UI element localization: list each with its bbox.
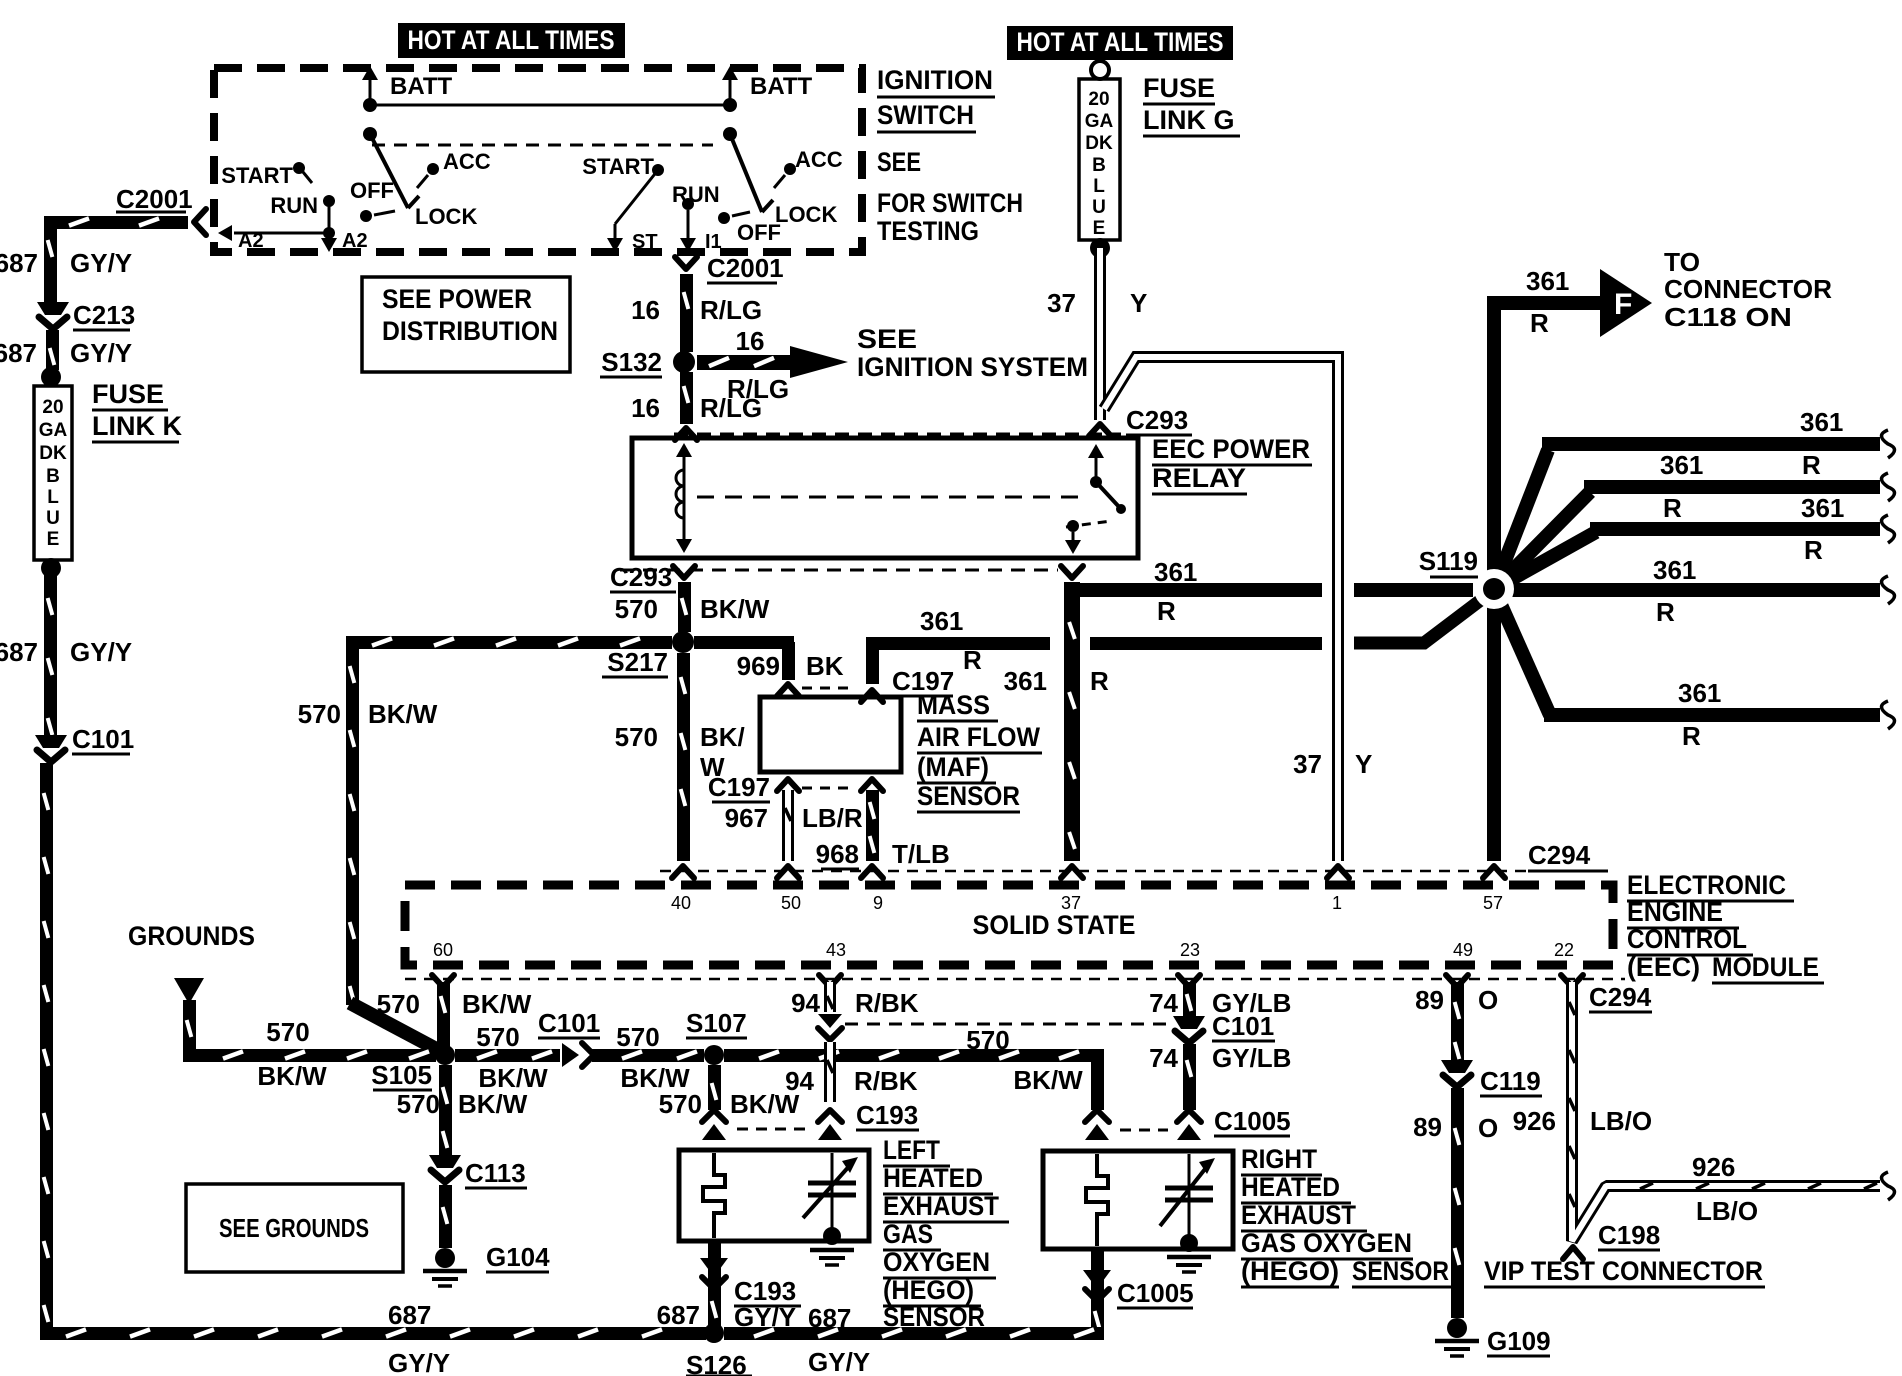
connector half C293 (relay top)	[675, 428, 697, 440]
svg-text:BK/W: BK/W	[700, 594, 770, 624]
svg-text:570: 570	[615, 594, 658, 624]
label 361 R (horizontal)	[1154, 557, 1197, 626]
label 687 GY/Y	[0, 248, 132, 278]
svg-text:G109: G109	[1487, 1326, 1551, 1356]
wire 570 BK/W S105 down to C113	[439, 1065, 452, 1155]
wire BATT internal bus	[370, 104, 730, 107]
connector half C294 pin 22	[1561, 975, 1583, 987]
connector half C294 pin 60	[432, 975, 454, 987]
svg-text:C1005: C1005	[1214, 1106, 1291, 1136]
label 89 O (lower)	[1413, 1112, 1498, 1143]
wire 570 BK/W relay to S217	[678, 582, 691, 632]
label ELECTRONIC ENGINE CONTROL (EEC) MODULE	[1627, 870, 1824, 983]
svg-text:BK/W: BK/W	[1013, 1065, 1083, 1095]
svg-text:(MAF): (MAF)	[917, 752, 989, 782]
svg-text:U: U	[1092, 197, 1106, 218]
splice S132	[600, 347, 695, 377]
label 570 BK/W (S105-C101)	[476, 1022, 548, 1093]
wire 570 BK/W EEC pin 60 to S105	[437, 982, 450, 1048]
svg-text:C213: C213	[73, 300, 135, 330]
contact LOCK (right)	[762, 200, 837, 227]
svg-text:968: 968	[816, 839, 859, 869]
wire 687 GY/Y left vertical upper	[44, 216, 57, 302]
svg-text:20: 20	[42, 397, 63, 418]
wire 361 R S119 down to EEC pin 57	[1487, 589, 1501, 861]
svg-text:22: 22	[1554, 940, 1574, 960]
label 570 BK/W	[615, 594, 770, 624]
connector half C294 pin 49	[1446, 975, 1468, 987]
svg-text:SEE GROUNDS: SEE GROUNDS	[219, 1213, 369, 1243]
right HEGO sensing element	[1160, 1154, 1215, 1272]
svg-text:RIGHT: RIGHT	[1241, 1144, 1317, 1174]
svg-text:E: E	[1093, 218, 1106, 239]
svg-text:IGNITION: IGNITION	[877, 65, 993, 95]
wire 361 R spoke 5 horizontal	[1544, 701, 1895, 729]
svg-text:687: 687	[0, 338, 37, 368]
svg-text:ELECTRONIC: ELECTRONIC	[1627, 870, 1786, 900]
svg-text:C197: C197	[708, 772, 770, 802]
svg-text:89: 89	[1413, 1112, 1442, 1142]
svg-text:361: 361	[1154, 557, 1197, 587]
label LEFT HEATED EXHAUST GAS OXYGEN (HEGO) SENSOR	[883, 1135, 1009, 1333]
right BATT terminal arrow	[722, 66, 813, 105]
connector C197 interface dashed line (top)	[802, 687, 856, 690]
connector C197 interface dashed line (bottom)	[802, 787, 856, 790]
svg-text:C2001: C2001	[707, 253, 784, 283]
connector half C294 pin 1	[1327, 866, 1349, 878]
svg-text:HOT AT ALL TIMES: HOT AT ALL TIMES	[1017, 27, 1224, 57]
connector C101 (94 wire)	[818, 1014, 842, 1040]
power source banner HOT AT ALL TIMES (right)	[1007, 26, 1233, 60]
connector C1005 (bottom)	[1083, 1270, 1194, 1308]
contact LOCK (left)	[408, 196, 477, 229]
label 74 GY/LB (upper)	[1149, 988, 1291, 1018]
svg-text:BK/W: BK/W	[257, 1061, 327, 1091]
svg-text:VIP TEST CONNECTOR: VIP TEST CONNECTOR	[1484, 1256, 1763, 1286]
svg-text:ST: ST	[632, 231, 658, 253]
wire 361 R spoke 3 diagonal	[1494, 532, 1596, 589]
svg-text:CONTROL: CONTROL	[1627, 924, 1747, 954]
label 570 BK/W (C101-S107)	[616, 1022, 690, 1093]
left BATT terminal arrow	[362, 66, 453, 105]
label C193 (top)	[856, 1100, 919, 1130]
svg-text:LOCK: LOCK	[415, 204, 477, 229]
connector half C197 pin 969	[777, 684, 799, 696]
connector C101 (ground bus)	[538, 1008, 600, 1067]
label 16 R/LG (arrow)	[727, 326, 789, 404]
connector C294 interface dashed line (bottom)	[405, 978, 1625, 981]
svg-text:16: 16	[631, 393, 660, 423]
wire 570 BK/W S107 to right HEGO	[724, 1049, 1104, 1062]
wire 968 T/LB	[866, 790, 879, 861]
right HEGO sensor box	[1043, 1151, 1233, 1249]
svg-text:361: 361	[1653, 555, 1696, 585]
svg-text:SENSOR: SENSOR	[917, 781, 1020, 811]
svg-text:DK: DK	[39, 443, 67, 464]
EEC power relay box	[632, 438, 1138, 558]
svg-text:S126: S126	[686, 1350, 747, 1376]
svg-text:S105: S105	[371, 1060, 432, 1090]
svg-text:TESTING: TESTING	[877, 216, 979, 246]
label RIGHT HEATED EXHAUST GAS OXYGEN (HEGO) SENSOR	[1241, 1144, 1461, 1287]
label 37 Y	[1047, 288, 1147, 318]
svg-text:C1005: C1005	[1117, 1278, 1194, 1308]
label C293	[1126, 405, 1192, 435]
svg-text:EXHAUST: EXHAUST	[1241, 1200, 1356, 1230]
svg-text:BK/: BK/	[700, 722, 745, 752]
svg-text:687: 687	[808, 1303, 851, 1333]
svg-text:RUN: RUN	[270, 193, 318, 218]
connector C101 (74 wire)	[1173, 1011, 1275, 1043]
svg-text:ACC: ACC	[795, 147, 843, 172]
wire 687 GY/Y below fuse link K	[44, 568, 57, 735]
label 968 T/LB	[816, 839, 950, 869]
connector half C293 coil feed	[1089, 424, 1111, 436]
svg-text:37: 37	[1047, 288, 1076, 318]
svg-text:20: 20	[1088, 89, 1109, 110]
svg-text:570: 570	[377, 989, 420, 1019]
wire 89 O upper	[1451, 982, 1464, 1060]
connector C1005 (74 wire)	[1177, 1110, 1201, 1140]
wire 967 LB/R hollow	[782, 790, 794, 861]
label 361 R (spoke 2)	[1660, 450, 1703, 523]
svg-text:570: 570	[616, 1022, 659, 1052]
wire 687 GY/Y ground bus right segment	[724, 1327, 1103, 1340]
fuse link G 20GA DK BLUE	[1079, 79, 1120, 240]
wire 570 BK/W S217 down to EEC pin 40	[677, 653, 690, 861]
wire 361 R spoke 4 horizontal	[1494, 576, 1895, 604]
svg-text:BATT: BATT	[750, 73, 813, 100]
note SEE IGNITION SYSTEM	[857, 324, 1088, 382]
wire 687 GY/Y left HEGO to S126	[708, 1241, 721, 1330]
label C1005 (top)	[1214, 1106, 1291, 1136]
wire 37 Y vertical from fuse link G	[1094, 248, 1106, 420]
splice S105	[371, 1045, 455, 1090]
note TO CONNECTOR C118 ON	[1664, 247, 1832, 332]
svg-text:START: START	[582, 154, 654, 179]
svg-text:RUN: RUN	[672, 182, 720, 207]
connector half C294 pin 9	[861, 866, 883, 878]
label 967 LB/R	[725, 803, 863, 833]
wire 570 BK/W C113 to G104	[439, 1185, 452, 1248]
right ignition switch rotor arm	[730, 134, 762, 212]
svg-text:HOT AT ALL TIMES: HOT AT ALL TIMES	[408, 25, 615, 55]
svg-text:570: 570	[397, 1089, 440, 1119]
label 361 R (C118 feed)	[1526, 266, 1569, 338]
svg-text:SENSOR: SENSOR	[1352, 1256, 1449, 1286]
node right batt junction	[723, 98, 737, 112]
svg-text:S217: S217	[607, 647, 668, 677]
svg-text:T/LB: T/LB	[892, 839, 950, 869]
svg-text:LOCK: LOCK	[775, 202, 837, 227]
connector C119	[1441, 1060, 1542, 1096]
svg-text:C101: C101	[1212, 1011, 1274, 1041]
svg-text:60: 60	[433, 940, 453, 960]
splice S119	[1419, 546, 1514, 609]
wire 361 R spoke 3 horizontal	[1590, 515, 1895, 543]
svg-text:B: B	[46, 466, 60, 487]
svg-text:R: R	[1157, 596, 1176, 626]
svg-text:B: B	[1092, 155, 1106, 176]
splice S107	[686, 1008, 747, 1065]
svg-text:C293: C293	[1126, 405, 1188, 435]
relay coil	[676, 443, 692, 553]
svg-text:SEE POWER: SEE POWER	[382, 284, 532, 314]
svg-text:1: 1	[1332, 893, 1342, 913]
label 361 R (spoke 3)	[1801, 493, 1844, 565]
svg-text:687: 687	[657, 1300, 700, 1330]
connector C293 interface dashed line	[674, 433, 1121, 436]
svg-text:E: E	[47, 529, 60, 550]
connector half C294 pin 43	[819, 975, 841, 987]
svg-text:SEE: SEE	[877, 147, 921, 177]
svg-text:SWITCH: SWITCH	[877, 100, 974, 130]
contact OFF (left)	[350, 178, 395, 222]
wire 687 GY/Y right HEGO down	[1091, 1249, 1104, 1340]
contact RUN (right)	[672, 182, 720, 210]
svg-text:GY/Y: GY/Y	[70, 248, 132, 278]
wire 94 R/BK hollow lower	[824, 1042, 836, 1102]
label 926 LB/O (vertical)	[1513, 1106, 1653, 1136]
svg-text:GA: GA	[39, 420, 68, 441]
svg-text:I1: I1	[705, 231, 722, 253]
svg-text:A2: A2	[342, 230, 368, 252]
wire 687 GY/Y horizontal from C2001	[44, 216, 188, 229]
fuse link K 20GA DK BLUE	[34, 386, 72, 560]
svg-text:BK/W: BK/W	[730, 1089, 800, 1119]
label 16 R/LG	[631, 295, 762, 325]
svg-text:40: 40	[671, 893, 691, 913]
wire 16 R/LG to ignition system with arrow	[697, 346, 848, 378]
svg-text:C118 ON: C118 ON	[1664, 302, 1792, 332]
connector C101 interface dashed line	[845, 1023, 1172, 1026]
label 570 BK/W (riser)	[298, 699, 438, 729]
contact OFF (right)	[718, 212, 781, 245]
svg-text:GA: GA	[1085, 111, 1114, 132]
connector C198	[1563, 1220, 1660, 1259]
svg-text:R: R	[1090, 666, 1109, 696]
connector C213	[37, 300, 135, 330]
svg-text:MASS: MASS	[917, 690, 990, 720]
label C293 (bottom)	[610, 562, 676, 592]
svg-text:F: F	[1614, 288, 1632, 321]
contact ACC (right)	[774, 147, 843, 188]
svg-text:43: 43	[826, 940, 846, 960]
terminal ST wire and arrow	[607, 170, 658, 253]
connector half C293 relay output	[1061, 566, 1083, 578]
svg-text:GY/Y: GY/Y	[70, 338, 132, 368]
svg-text:GY/Y: GY/Y	[70, 637, 132, 667]
svg-text:SOLID STATE: SOLID STATE	[973, 910, 1136, 940]
label C197 (bottom)	[708, 772, 770, 802]
contact START (left)	[221, 162, 312, 188]
connector C1005 (570 wire)	[1085, 1110, 1109, 1140]
svg-text:R: R	[1530, 308, 1549, 338]
splice S217	[602, 631, 694, 677]
svg-text:361: 361	[1801, 493, 1844, 523]
svg-text:AIR FLOW: AIR FLOW	[917, 722, 1040, 752]
svg-text:DK: DK	[1085, 133, 1113, 154]
contact RUN (left)	[270, 193, 335, 218]
left ignition switch rotor arm	[370, 134, 408, 208]
label VIP TEST CONNECTOR	[1484, 1256, 1765, 1287]
relay switch contact	[1065, 444, 1126, 554]
svg-text:C113: C113	[465, 1158, 526, 1188]
svg-text:C198: C198	[1598, 1220, 1660, 1250]
label 570 BK/W (grounds)	[257, 1017, 327, 1091]
svg-text:570: 570	[298, 699, 341, 729]
label 361 R (MAF feed)	[920, 606, 982, 675]
svg-text:16: 16	[736, 326, 765, 356]
svg-text:50: 50	[781, 893, 801, 913]
svg-text:BK/W: BK/W	[458, 1089, 528, 1119]
connector C294 interface dashed line (top)	[660, 870, 1608, 873]
wire 361 R to F arrow	[1487, 296, 1600, 310]
mass air flow sensor box	[760, 697, 901, 772]
node fuse link K bottom	[41, 558, 61, 578]
note box SEE POWER DISTRIBUTION	[362, 277, 570, 372]
svg-text:L: L	[47, 487, 59, 508]
svg-text:C101: C101	[538, 1008, 600, 1038]
svg-text:16: 16	[631, 295, 660, 325]
wire 74 GY/LB upper	[1183, 982, 1196, 1016]
svg-text:74: 74	[1149, 988, 1178, 1018]
svg-text:O: O	[1478, 985, 1498, 1015]
svg-text:GAS OXYGEN: GAS OXYGEN	[1241, 1228, 1412, 1258]
terminal A2 junction and arrows	[218, 206, 368, 252]
wire 16 R/LG upper	[680, 274, 693, 352]
svg-text:89: 89	[1415, 985, 1444, 1015]
label EEC POWER RELAY	[1152, 434, 1312, 494]
wire 570 BK/W C101 to S107	[592, 1049, 704, 1062]
connector C193 interface dashed line	[737, 1128, 808, 1131]
svg-text:L: L	[1093, 176, 1105, 197]
connector half C294 pin 23	[1178, 975, 1200, 987]
svg-text:361: 361	[1004, 666, 1047, 696]
connector half C293 coil return	[673, 566, 695, 578]
svg-text:361: 361	[1660, 450, 1703, 480]
svg-text:BATT: BATT	[390, 73, 453, 100]
wire 570 BK/W grounds drop	[183, 1000, 196, 1055]
connector half C197 pin 967 (box side)	[777, 779, 799, 791]
wire internal dashed link	[372, 144, 713, 147]
wire 361 R spoke 5 diagonal	[1494, 589, 1550, 715]
svg-text:GY/Y: GY/Y	[808, 1347, 870, 1376]
label C294 (pin 22)	[1589, 982, 1652, 1012]
svg-text:926: 926	[1692, 1152, 1735, 1182]
label 74 GY/LB (lower)	[1149, 1043, 1291, 1073]
svg-text:MODULE: MODULE	[1712, 952, 1819, 982]
label 361 R (spoke 1)	[1800, 407, 1843, 480]
connector C293 interface dashed line (relay bottom)	[620, 569, 1058, 572]
wire 570 BK/W riser diagonal into S105	[350, 1003, 442, 1052]
svg-text:74: 74	[1149, 1043, 1178, 1073]
connector C193 (570 wire)	[702, 1110, 726, 1140]
svg-text:S107: S107	[686, 1008, 747, 1038]
wire 361 R relay output vertical to EEC pin 37	[1064, 582, 1080, 861]
svg-text:G104: G104	[486, 1242, 550, 1272]
label C197 (top)	[892, 666, 954, 696]
ground G104	[423, 1242, 550, 1286]
svg-text:361: 361	[1800, 407, 1843, 437]
label 361 R (spoke 4)	[1653, 555, 1696, 627]
svg-text:687: 687	[388, 1300, 431, 1330]
relay internal dashed link	[697, 496, 1082, 499]
label FUSE LINK G	[1143, 73, 1240, 136]
svg-text:23: 23	[1180, 940, 1200, 960]
svg-text:C2001: C2001	[116, 184, 193, 214]
svg-text:687: 687	[0, 248, 38, 278]
svg-text:(EEC): (EEC)	[1627, 952, 1700, 982]
svg-text:LINK K: LINK K	[92, 411, 182, 441]
wire 361 R spoke 2 horizontal	[1584, 473, 1895, 501]
connector half C294 pin 57	[1483, 866, 1505, 878]
wire 74 GY/LB lower	[1183, 1044, 1196, 1110]
svg-text:A2: A2	[238, 230, 264, 252]
label 687 GY/Y	[0, 338, 132, 368]
label 687 GY/Y (bus left)	[388, 1300, 450, 1376]
svg-text:687: 687	[0, 637, 38, 667]
label 89 O (upper)	[1415, 985, 1498, 1015]
svg-text:570: 570	[966, 1025, 1009, 1055]
wire 570 BK/W S107 down to left HEGO	[708, 1065, 721, 1110]
wire 570 BK/W S105 to C101	[455, 1049, 560, 1062]
node fuse link G bottom	[1090, 238, 1110, 258]
svg-text:9: 9	[873, 893, 883, 913]
svg-text:R: R	[963, 645, 982, 675]
wire 361 R spoke 2 diagonal	[1494, 492, 1590, 589]
svg-text:49: 49	[1453, 940, 1473, 960]
label 16 R/LG	[631, 393, 762, 423]
svg-text:LB/O: LB/O	[1590, 1106, 1652, 1136]
svg-text:CONNECTOR: CONNECTOR	[1664, 274, 1832, 304]
svg-text:C101: C101	[72, 724, 134, 754]
svg-text:926: 926	[1513, 1106, 1556, 1136]
connector C2001 (ignition feed)	[675, 253, 784, 283]
wire 926 LB/O squiggle end	[1882, 1172, 1895, 1200]
wire 361 R MAF pigtail	[866, 637, 879, 684]
svg-text:FOR SWITCH: FOR SWITCH	[877, 188, 1023, 218]
flag F to connector C118	[1600, 269, 1652, 337]
label 570 BK/W (to right HEGO)	[966, 1025, 1083, 1095]
svg-text:R/BK: R/BK	[854, 1066, 918, 1096]
contact ACC (left)	[417, 149, 491, 188]
svg-text:Y: Y	[1130, 288, 1147, 318]
splice S126	[686, 1323, 752, 1376]
svg-text:GAS: GAS	[883, 1219, 933, 1249]
ignition switch dashed enclosure	[214, 68, 862, 252]
note box SEE GROUNDS	[186, 1184, 403, 1272]
wire 361 R spoke 1 horizontal	[1542, 430, 1895, 458]
wire 361 R from MAF junction horizontal	[866, 637, 1050, 650]
left HEGO heater element	[703, 1153, 725, 1238]
svg-text:S119: S119	[1419, 546, 1478, 576]
power source banner HOT AT ALL TIMES (left)	[398, 23, 625, 58]
svg-text:361: 361	[1678, 678, 1721, 708]
svg-text:R: R	[1663, 493, 1682, 523]
svg-text:C119: C119	[1480, 1066, 1541, 1096]
svg-text:RELAY: RELAY	[1152, 463, 1246, 493]
note SEE FOR SWITCH TESTING	[877, 147, 1023, 246]
wire 361 R spoke 1 diagonal	[1494, 450, 1548, 589]
svg-text:O: O	[1478, 1113, 1498, 1143]
label 570 BK/ W	[615, 722, 745, 782]
svg-text:IGNITION SYSTEM: IGNITION SYSTEM	[857, 352, 1088, 382]
svg-text:EXHAUST: EXHAUST	[883, 1191, 999, 1221]
svg-text:START: START	[221, 163, 293, 188]
svg-text:ENGINE: ENGINE	[1627, 897, 1723, 927]
svg-text:HEATED: HEATED	[883, 1163, 983, 1193]
